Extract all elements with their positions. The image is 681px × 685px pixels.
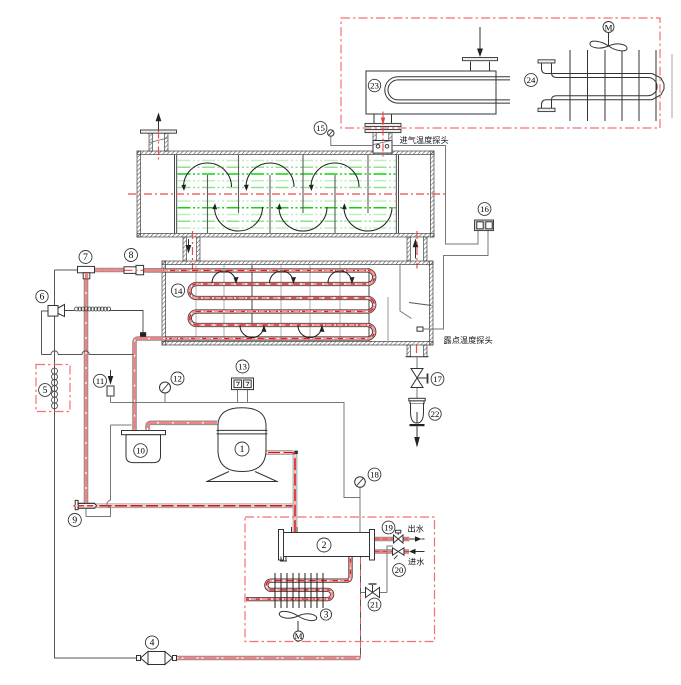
fan motor M (circle) [603,22,614,33]
bypass valve 21 [361,546,394,593]
label 11 [94,374,107,387]
filter drier 4 [137,656,141,661]
label 15 [314,122,327,135]
label 18 [368,468,381,481]
svg-text:9: 9 [72,515,77,526]
suction pipe from coil to accumulator 10 [135,339,166,431]
flow arcs vessel 2 [212,271,352,338]
svg-text:6: 6 [40,291,45,302]
svg-text:14: 14 [174,286,183,296]
vessel 1 centerline [128,193,446,195]
svg-text:24: 24 [527,75,536,85]
water inlet valve 20 [393,548,399,555]
svg-text:21: 21 [370,600,379,610]
label 14 [171,284,184,297]
liquid line riser condenser to bottom pipe [360,557,362,659]
capillary line x54 from tee down to filter 4 [55,270,138,658]
accumulator 10 to compressor suction pipe [148,423,218,430]
label 4 [145,636,158,649]
fin coil 24 flanges [538,60,555,63]
dashed module box (top-right air-cooled section) [341,18,660,128]
compressor 1 shell [218,408,266,472]
evaporator coil 14 [146,271,374,339]
water outlet valve 19 [394,535,399,543]
dashed module box (bottom water-cooled section) [245,517,435,642]
svg-text:2: 2 [322,540,327,551]
bottom-left duct to vessel 2 [183,237,200,261]
svg-text:进水: 进水 [408,557,424,567]
fin coil 24 fins [570,50,656,121]
green tube hatch [178,161,397,229]
svg-text:1: 1 [240,444,245,455]
capillary coil from valve 6 [65,311,144,334]
inlet temperature sensor housing [373,141,392,154]
svg-text:22: 22 [431,409,440,419]
water inlet pipe [375,551,410,553]
label 2 [317,538,331,552]
label 21 [368,598,381,611]
moisture separator [400,265,412,319]
label 1 [235,442,249,456]
svg-text:17: 17 [433,374,442,384]
terminal block 16 [475,220,494,231]
fan shaft [608,33,610,47]
drain valve 17 [416,357,418,399]
svg-text:18: 18 [370,470,379,480]
arrow into vessel 23 [479,27,481,49]
condenser 2 outlet to bypass coil 3 [246,557,351,600]
accumulator 10 [122,431,166,435]
top-left outlet duct [149,133,168,151]
sensing line run [111,403,361,498]
svg-text:16: 16 [480,204,489,214]
top-right inlet duct from vessel 23 [365,123,401,126]
label 3 [320,609,331,620]
fan motor M (circle) [294,631,304,641]
red feed line into vessel 1 [382,112,384,159]
pipe fitting 9 to discharge junction [96,505,293,507]
gauge 12 [164,393,166,403]
label 24 [525,74,538,87]
compressor discharge pipe down to condenser 2 [265,453,296,537]
bottom-right duct to vessel 2 [407,237,427,261]
condenser 2 shell [284,533,370,557]
vessel 2 drain port [407,345,427,357]
sensing bulb on suction pipe [140,332,146,337]
water outlet pipe [375,538,410,540]
fitting 9 [75,500,78,509]
vessel 23 shell [366,71,496,114]
svg-text:19: 19 [384,523,393,533]
label 5 [39,384,52,397]
bypass coil 3 fins [275,573,323,608]
svg-text:露点温度探头: 露点温度探头 [444,335,493,345]
label 12 [171,372,184,385]
heater coil 5 [52,368,58,409]
label 8 [125,249,138,262]
svg-text:M: M [295,631,303,641]
sight glass 8 [124,267,136,274]
liquid pipe filter 4 to condenser riser [177,657,361,659]
label 13 [236,360,249,373]
svg-text:5: 5 [43,385,48,396]
wire 15 to housing [331,136,373,145]
sensor bulb 15 [328,130,334,136]
tee 7 left arm [55,269,78,271]
vessel 23 U-tube [385,77,510,103]
svg-text:23: 23 [370,81,379,91]
tube sheets [175,155,399,234]
svg-text:13: 13 [238,362,247,372]
label 22 [429,408,441,420]
label 23 [368,79,380,91]
fan blades [590,41,627,51]
svg-text:7: 7 [83,252,88,263]
compressor base [206,472,278,482]
svg-text:进气温度探头: 进气温度探头 [400,135,449,145]
label 6 [36,290,48,302]
svg-text:3: 3 [324,609,329,620]
tee fitting 7 [78,266,95,272]
svg-text:M: M [605,22,613,32]
filter-drier 5 dashed box [36,365,70,412]
svg-text:10: 10 [136,446,145,456]
expansion valve 6 [42,311,49,355]
svg-text:20: 20 [395,565,404,575]
svg-text:12: 12 [173,374,182,384]
gauge 18 [359,488,361,533]
label 10 [134,444,148,458]
pipe tee 7 to sight glass 8 [95,269,125,271]
dew point sensor [417,327,423,331]
label 19 [382,521,395,534]
hot gas valve 11 [110,370,112,377]
vessel 23 bottom duct [374,114,392,124]
svg-text:8: 8 [129,250,134,261]
label 20 [393,564,406,577]
svg-text:11: 11 [96,376,104,386]
fin coil 24 tube [542,63,665,109]
vessel 23 top port [471,62,490,72]
label 7 [79,251,92,264]
label 9 [68,514,81,527]
vessel 2 supports [196,265,340,341]
label 17 [431,373,444,386]
vessel 2 evaporator walls [162,261,433,345]
baffles [208,175,336,233]
svg-text:出水: 出水 [408,524,424,534]
pipe sight glass 8 to vessel 2 [144,269,164,271]
equalizer line with hop-overs [42,351,134,355]
svg-text:4: 4 [150,637,155,648]
vessel 1 air-to-air exchanger walls [137,151,434,237]
auto drain 22 [409,398,425,401]
main red riser pipe tee 7 down to fitting 9 [85,277,87,503]
fan 3 blades [279,611,316,620]
pressure switch 13 [238,390,248,403]
discharge port dot [295,451,298,454]
label 16 [478,203,491,216]
svg-text:15: 15 [316,123,325,133]
wire housing to 16 [392,146,478,245]
flow arcs vessel 1 [184,163,393,231]
